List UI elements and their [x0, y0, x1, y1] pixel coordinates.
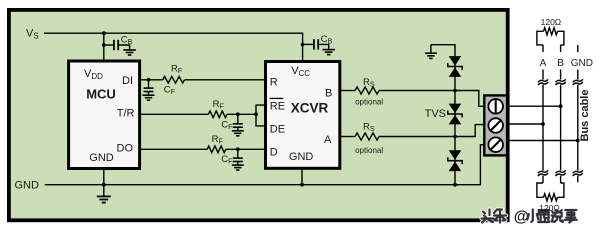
svg-text:RF: RF	[213, 99, 225, 111]
junction MCU GND/rail	[102, 183, 106, 187]
junction T/R bracket	[254, 112, 258, 116]
svg-text:GND: GND	[15, 179, 40, 191]
junction CB2 tap	[301, 43, 305, 47]
junction XCVR GND/rail	[300, 183, 304, 187]
junction CF2 tap	[236, 112, 240, 116]
wire terminal1 to bus B	[507, 105, 560, 107]
wire VS rail to XCVR Vcc	[44, 33, 303, 61]
svg-text:R: R	[270, 77, 278, 89]
wire CB1 branch	[104, 44, 113, 46]
junction TVS/GND rail	[453, 183, 457, 187]
resistor RF (DO line)	[207, 146, 226, 153]
ground (CB1)	[123, 49, 136, 51]
junction CF1 tap	[147, 78, 151, 82]
capacitor CF (T/R line)	[237, 114, 239, 123]
capacitor CB (right, XCVR bypass)	[313, 39, 315, 49]
svg-text:GND: GND	[571, 58, 593, 69]
svg-text:RS: RS	[363, 77, 375, 89]
svg-text:D: D	[270, 146, 278, 158]
svg-text:GND: GND	[289, 151, 314, 163]
svg-text:120Ω: 120Ω	[541, 17, 562, 27]
svg-text:120Ω: 120Ω	[539, 203, 560, 213]
resistor RT1 120ohm (top termination)	[537, 31, 544, 45]
resistor RT2 120ohm (bottom termination)	[537, 183, 544, 197]
watermark (decorative)	[482, 210, 577, 223]
wire DI (MCU to R)	[140, 79, 163, 81]
break marks (bottom)	[538, 170, 548, 176]
svg-text:B: B	[325, 87, 332, 99]
svg-text:CF: CF	[221, 120, 233, 132]
wire MCU GND drop	[103, 169, 105, 196]
junction VS/MCU VDD	[102, 31, 106, 35]
svg-text:XCVR: XCVR	[291, 101, 329, 116]
svg-text:T/R: T/R	[117, 108, 135, 120]
wire T/R (MCU to RE/DE)	[140, 113, 209, 115]
junction B/TVS	[453, 89, 457, 93]
screw terminal 3 (GND)	[488, 137, 503, 152]
resistor RF (T/R line)	[208, 111, 227, 118]
TVS diode D3 (bottom)	[449, 150, 462, 160]
TVS diode D1 (top)	[449, 56, 462, 66]
wire TVS chain top / ground hook	[431, 45, 455, 185]
svg-text:GND: GND	[89, 152, 114, 164]
ground (MCU GND)	[97, 195, 111, 197]
break marks (top)	[538, 79, 548, 85]
svg-text:optional: optional	[355, 146, 383, 155]
svg-text:RE: RE	[270, 101, 285, 113]
svg-text:RS: RS	[363, 122, 375, 134]
wire bus B	[560, 45, 562, 52]
svg-text:B: B	[557, 58, 564, 69]
wire MCU VDD drop	[103, 33, 105, 61]
svg-text:CF: CF	[164, 85, 176, 97]
wire terminal2 to bus A	[507, 123, 543, 125]
wire CB2 branch	[303, 43, 314, 45]
PCB board outline	[9, 10, 508, 220]
svg-text:A: A	[540, 58, 547, 69]
resistor RS (A line)	[355, 133, 379, 140]
wire CB1 to ground	[119, 45, 130, 49]
wire DO (MCU to D)	[140, 148, 208, 150]
svg-text:RF: RF	[212, 134, 224, 146]
wire bus GND	[577, 45, 579, 52]
MCU U1	[69, 61, 140, 169]
svg-text:DO: DO	[117, 142, 134, 154]
svg-text:CF: CF	[221, 154, 233, 166]
wire A (XCVR to bus)	[340, 136, 355, 138]
screw terminal 2 (A)	[488, 118, 503, 133]
wire terminal3 to bus GND	[507, 140, 578, 142]
svg-text:optional: optional	[355, 97, 383, 106]
svg-text:DE: DE	[270, 123, 285, 135]
ground (CF1)	[143, 94, 155, 96]
ground (TVS top)	[425, 52, 437, 54]
junction CF3 tap	[236, 147, 240, 151]
junction CB1 tap	[102, 43, 106, 47]
ground (CF2)	[232, 130, 244, 132]
svg-text:CB: CB	[121, 34, 133, 46]
svg-text:CB: CB	[321, 34, 333, 46]
capacitor CF (DI line)	[148, 80, 150, 88]
svg-text:RF: RF	[171, 63, 183, 75]
svg-text:A: A	[324, 134, 332, 146]
junction A/TVS	[453, 135, 457, 139]
wire GND rail	[45, 145, 486, 185]
transceiver XCVR U2	[266, 62, 340, 169]
svg-text:TVS: TVS	[425, 108, 446, 120]
ground (CB2)	[322, 49, 335, 51]
wire CB2 to ground	[319, 44, 329, 48]
svg-text:@: @	[514, 209, 529, 226]
wire RE/DE bracket	[256, 105, 266, 126]
svg-text:Bus cable: Bus cable	[579, 90, 591, 142]
ground (CF3)	[232, 164, 244, 166]
screw terminal 1 (B)	[488, 99, 503, 114]
resistor RF (DI line)	[163, 77, 185, 84]
wire B (XCVR to bus)	[340, 90, 355, 92]
resistor RS (B line)	[355, 87, 379, 94]
svg-text:DI: DI	[122, 75, 133, 87]
wire bus A	[542, 45, 544, 52]
capacitor CF (DO line)	[237, 149, 239, 157]
terminal block J1	[484, 95, 507, 155]
svg-text:MCU: MCU	[86, 87, 116, 102]
wire XCVR GND drop	[301, 168, 303, 184]
capacitor CB (left, MCU bypass)	[113, 40, 115, 50]
